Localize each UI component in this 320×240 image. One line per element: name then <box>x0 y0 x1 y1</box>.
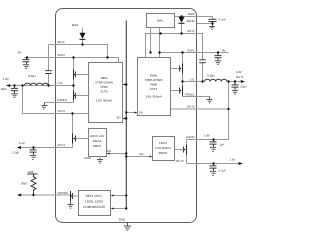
capacitor C-BST1 <box>199 60 206 63</box>
EN arrow to PWM1 EN pin <box>135 112 138 114</box>
svg-text:LX2: LX2 <box>58 81 63 85</box>
wire OUT3 row <box>187 163 240 165</box>
svg-text:100k: 100k <box>28 170 35 174</box>
svg-text:1.5V: 1.5V <box>230 158 236 162</box>
junction (181.5,16.5) <box>180 15 182 17</box>
wire AGND row <box>197 24 213 26</box>
junction (213.5,163.5) <box>212 162 214 164</box>
wire OUT2 sense <box>23 86 89 114</box>
block PWM2 (left step-down) <box>89 63 123 123</box>
block REF/comparator <box>79 191 111 216</box>
junction (126.25,195.5) <box>125 194 127 196</box>
svg-text:EN: EN <box>107 149 111 153</box>
svg-text:AGND: AGND <box>186 19 194 23</box>
block LDO3 <box>153 137 175 161</box>
wire right switch leg <box>182 53 184 97</box>
junction (126.25,84.5) <box>125 83 127 85</box>
junction (126.25,118.5) <box>125 117 127 119</box>
EN arrow to comparator upper <box>111 195 114 197</box>
node OUT3 1.5V <box>230 158 243 166</box>
wire PGOOD row <box>20 194 71 196</box>
svg-text:1.8V: 1.8V <box>236 70 242 74</box>
svg-text:PMOS: PMOS <box>159 151 168 155</box>
svg-text:8V: 8V <box>222 49 226 53</box>
IC U1 outer body <box>56 9 197 223</box>
svg-text:BST2: BST2 <box>58 40 65 44</box>
svg-text:1.8V: 1.8V <box>3 77 9 81</box>
node OUT1 1.8V <box>236 70 245 83</box>
svg-text:4.7µF: 4.7µF <box>219 169 226 173</box>
svg-text:OUT1: OUT1 <box>150 87 158 91</box>
wire BST1 block leg <box>145 34 147 58</box>
transistor N1 (high-side left) <box>73 70 88 80</box>
svg-text:REF1 (INT),: REF1 (INT), <box>86 194 103 198</box>
wire BST1 cap lower leg <box>202 63 204 82</box>
svg-text:1.8V, 500mA: 1.8V, 500mA <box>145 95 162 99</box>
capacitor C-OUT2 10uF <box>1 86 19 98</box>
capacitor C-BIAS 4.7uF <box>209 18 226 24</box>
wire EN stub LDO4 <box>108 153 127 155</box>
ground GND pin <box>119 218 132 231</box>
capacitor C-OUT3 4.7uF <box>210 164 226 176</box>
svg-text:4MHz: 4MHz <box>150 74 158 78</box>
svg-text:BIAS: BIAS <box>72 23 79 27</box>
transistor N3 (high-side right) <box>171 64 183 74</box>
transistor P1 (LDO3 PMOS pass) <box>175 145 187 155</box>
wire EN stub comparator lower <box>112 208 127 210</box>
svg-text:22µF: 22µF <box>241 85 248 89</box>
wire left switch leg <box>73 58 75 103</box>
svg-text:10µF: 10µF <box>1 87 8 91</box>
wire LDO4 ground stub <box>99 157 101 160</box>
svg-text:GND: GND <box>119 218 125 222</box>
node 8V right <box>222 49 226 53</box>
capacitor C-IN1 (8V right) <box>215 53 222 65</box>
junction (160.5,33.5) <box>159 32 161 34</box>
svg-text:2.2µF: 2.2µF <box>12 151 19 155</box>
svg-text:LX1: LX1 <box>190 78 195 82</box>
junction (72.5,113.5) <box>71 112 73 114</box>
svg-text:GND: GND <box>21 182 27 186</box>
svg-text:SUP1: SUP1 <box>187 49 195 53</box>
junction (235,81.5) <box>234 80 236 82</box>
svg-text:EN: EN <box>139 112 143 115</box>
block PWM1 (right step-down) <box>138 58 171 116</box>
EN arrow to LDO4 <box>107 153 110 155</box>
svg-text:PGND1: PGND1 <box>185 92 195 96</box>
junction (213.5,139.5) <box>212 138 214 140</box>
wire EN stub PWM1 <box>126 112 136 114</box>
junction (150.5,52.5) <box>149 51 151 53</box>
svg-text:400mA: 400mA <box>92 139 101 143</box>
wire LDOIN feed <box>187 82 229 140</box>
svg-text:LDO3: LDO3 <box>159 141 167 145</box>
wire BIAS row <box>175 17 213 20</box>
EN arrow to PWM2 upper <box>123 84 126 86</box>
junction (228.5,109) <box>227 108 229 110</box>
node 8V left <box>18 51 22 55</box>
EN arrow to PWM2 EN pin <box>123 118 126 120</box>
node PGOOD out <box>17 194 21 197</box>
ground PGND1 <box>207 97 213 104</box>
svg-text:1.8V: 1.8V <box>204 134 210 138</box>
junction (107.5,57.5) <box>106 56 108 58</box>
svg-text:PGND2: PGND2 <box>58 98 68 102</box>
svg-text:STEP-DOWN: STEP-DOWN <box>95 81 113 85</box>
svg-text:1µF: 1µF <box>220 143 225 147</box>
junction (14.5,85.5) <box>13 84 15 86</box>
svg-text:LDO5, LDO6: LDO5, LDO6 <box>85 200 103 204</box>
junction (33.5,195) <box>32 194 34 196</box>
svg-text:SUP2: SUP2 <box>58 53 66 57</box>
svg-text:BST1: BST1 <box>188 29 195 33</box>
junction (73.5,85.5) <box>72 84 74 86</box>
wire SUP1 row <box>160 52 229 54</box>
svg-text:3.3µH: 3.3µH <box>207 74 215 78</box>
wire PGND1 row <box>183 96 210 98</box>
node OUT2 1.8V <box>3 77 10 87</box>
transistor N2 (low-side left) <box>73 91 88 101</box>
junction (82.5,44.5) <box>81 43 83 45</box>
svg-text:PGOOD: PGOOD <box>58 191 68 195</box>
junction (159.5,52.5) <box>158 51 160 53</box>
transistor N6 (PGOOD open-drain) <box>70 191 78 201</box>
wire PGND2 row <box>45 102 74 104</box>
wire LX1 row <box>183 81 242 83</box>
wire EN stub LDO3 <box>126 156 151 158</box>
enable bus <box>125 21 127 210</box>
junction (126.25,153.5) <box>125 152 127 154</box>
wire LDO4 pass leg <box>72 114 74 148</box>
wire BIAS feed leg <box>159 28 161 58</box>
svg-text:EN: EN <box>140 152 144 156</box>
inductor L1 3.3uH <box>205 74 227 82</box>
junction (182.5,81.5) <box>181 80 183 82</box>
junction (27,57.5) <box>26 56 28 58</box>
junction (126.25,208.5) <box>125 207 127 209</box>
capacitor C-OUT4 2.2uF <box>12 148 37 160</box>
svg-text:OUT4: OUT4 <box>58 143 66 147</box>
capacitor C-LDOIN 1uF <box>210 140 225 152</box>
junction (181.5,33.5) <box>180 32 182 34</box>
svg-text:PWM: PWM <box>150 83 158 87</box>
svg-text:1.5V,150mA: 1.5V,150mA <box>155 146 171 150</box>
junction (212.5,23.5) <box>211 22 213 24</box>
ground AGND cap <box>209 24 215 30</box>
wire BST2 row <box>56 45 108 58</box>
node OUT4 1.2V <box>17 141 25 149</box>
wire OUT4 row <box>20 147 73 149</box>
svg-text:OUT2: OUT2 <box>58 109 66 113</box>
wire BIAS feed leg 2 <box>150 28 152 53</box>
capacitor C-BST2 (external bootstrap) <box>45 45 55 86</box>
transistor N4 (low-side right) <box>171 86 183 96</box>
svg-text:LDOIN: LDOIN <box>186 135 195 139</box>
junction (228.5,81.5) <box>227 80 229 82</box>
junction (126.25,112.5) <box>125 111 127 113</box>
resistor R1 pull <box>21 170 38 195</box>
wire SUP2 row <box>24 58 119 63</box>
wire LDO3 pass leg <box>186 140 188 164</box>
svg-text:OUT2: OUT2 <box>100 90 108 94</box>
EN arrow to LDO3 <box>150 156 153 158</box>
junction (126.25,156.5) <box>125 155 127 157</box>
svg-text:EN: EN <box>117 117 121 120</box>
svg-text:BIAS: BIAS <box>157 20 163 23</box>
wire EN stub PWM2 upper <box>123 84 127 86</box>
diode D2 (BIAS to BST1) <box>179 17 185 34</box>
svg-text:4.7µF: 4.7µF <box>219 18 226 22</box>
block BIAS <box>147 14 175 28</box>
svg-text:PWM: PWM <box>100 85 108 89</box>
svg-text:COMPARATOR: COMPARATOR <box>83 205 105 209</box>
ground PGOOD FET <box>68 201 74 208</box>
ground PGND2 <box>42 103 48 110</box>
svg-text:NMOS: NMOS <box>93 144 102 148</box>
svg-text:3.3µH: 3.3µH <box>28 74 36 78</box>
svg-text:1.8V, 900mA: 1.8V, 900mA <box>96 99 113 103</box>
svg-text:4MHz: 4MHz <box>100 76 108 80</box>
svg-text:1.2V: 1.2V <box>19 141 25 145</box>
junction (202.5,81.5) <box>201 80 203 82</box>
diode D1 (BIAS to BST2) <box>72 23 86 45</box>
inductor L2 3.3uH <box>25 74 56 86</box>
wire EN stub comparator upper <box>112 195 127 197</box>
junction (22.5,85.5) <box>21 84 23 86</box>
block LDO4 <box>89 129 107 157</box>
EN arrow to comparator lower <box>111 208 114 210</box>
wire OUT1 row <box>171 108 229 110</box>
capacitor C-IN2 (8V left) <box>23 58 30 69</box>
svg-text:STEP-DOWN: STEP-DOWN <box>145 78 163 82</box>
svg-text:OUT3: OUT3 <box>176 159 184 163</box>
svg-text:OUT1: OUT1 <box>187 104 195 108</box>
wire BST1 row <box>146 34 203 60</box>
junction (33.5,147.5) <box>32 146 34 148</box>
junction (48.5,85.5) <box>47 84 49 86</box>
ground LDO4 <box>85 156 104 163</box>
junction (218,52.5) <box>217 51 219 53</box>
transistor N5 (LDO4 NMOS pass) <box>73 134 89 144</box>
wire EN stub PWM2 <box>123 118 127 120</box>
svg-text:BIAS: BIAS <box>188 12 195 16</box>
svg-text:8V: 8V <box>18 51 22 55</box>
junction (73.5,57.5) <box>72 56 74 58</box>
junction (182.5,52.5) <box>181 51 183 53</box>
svg-text:OUT1: OUT1 <box>236 75 244 79</box>
wire LX2 row (output side) <box>7 85 74 87</box>
svg-text:GND: GND <box>85 156 91 160</box>
capacitor C-OUT1 22uF <box>232 82 248 95</box>
svg-text:LDO4 1.2V: LDO4 1.2V <box>90 134 104 138</box>
